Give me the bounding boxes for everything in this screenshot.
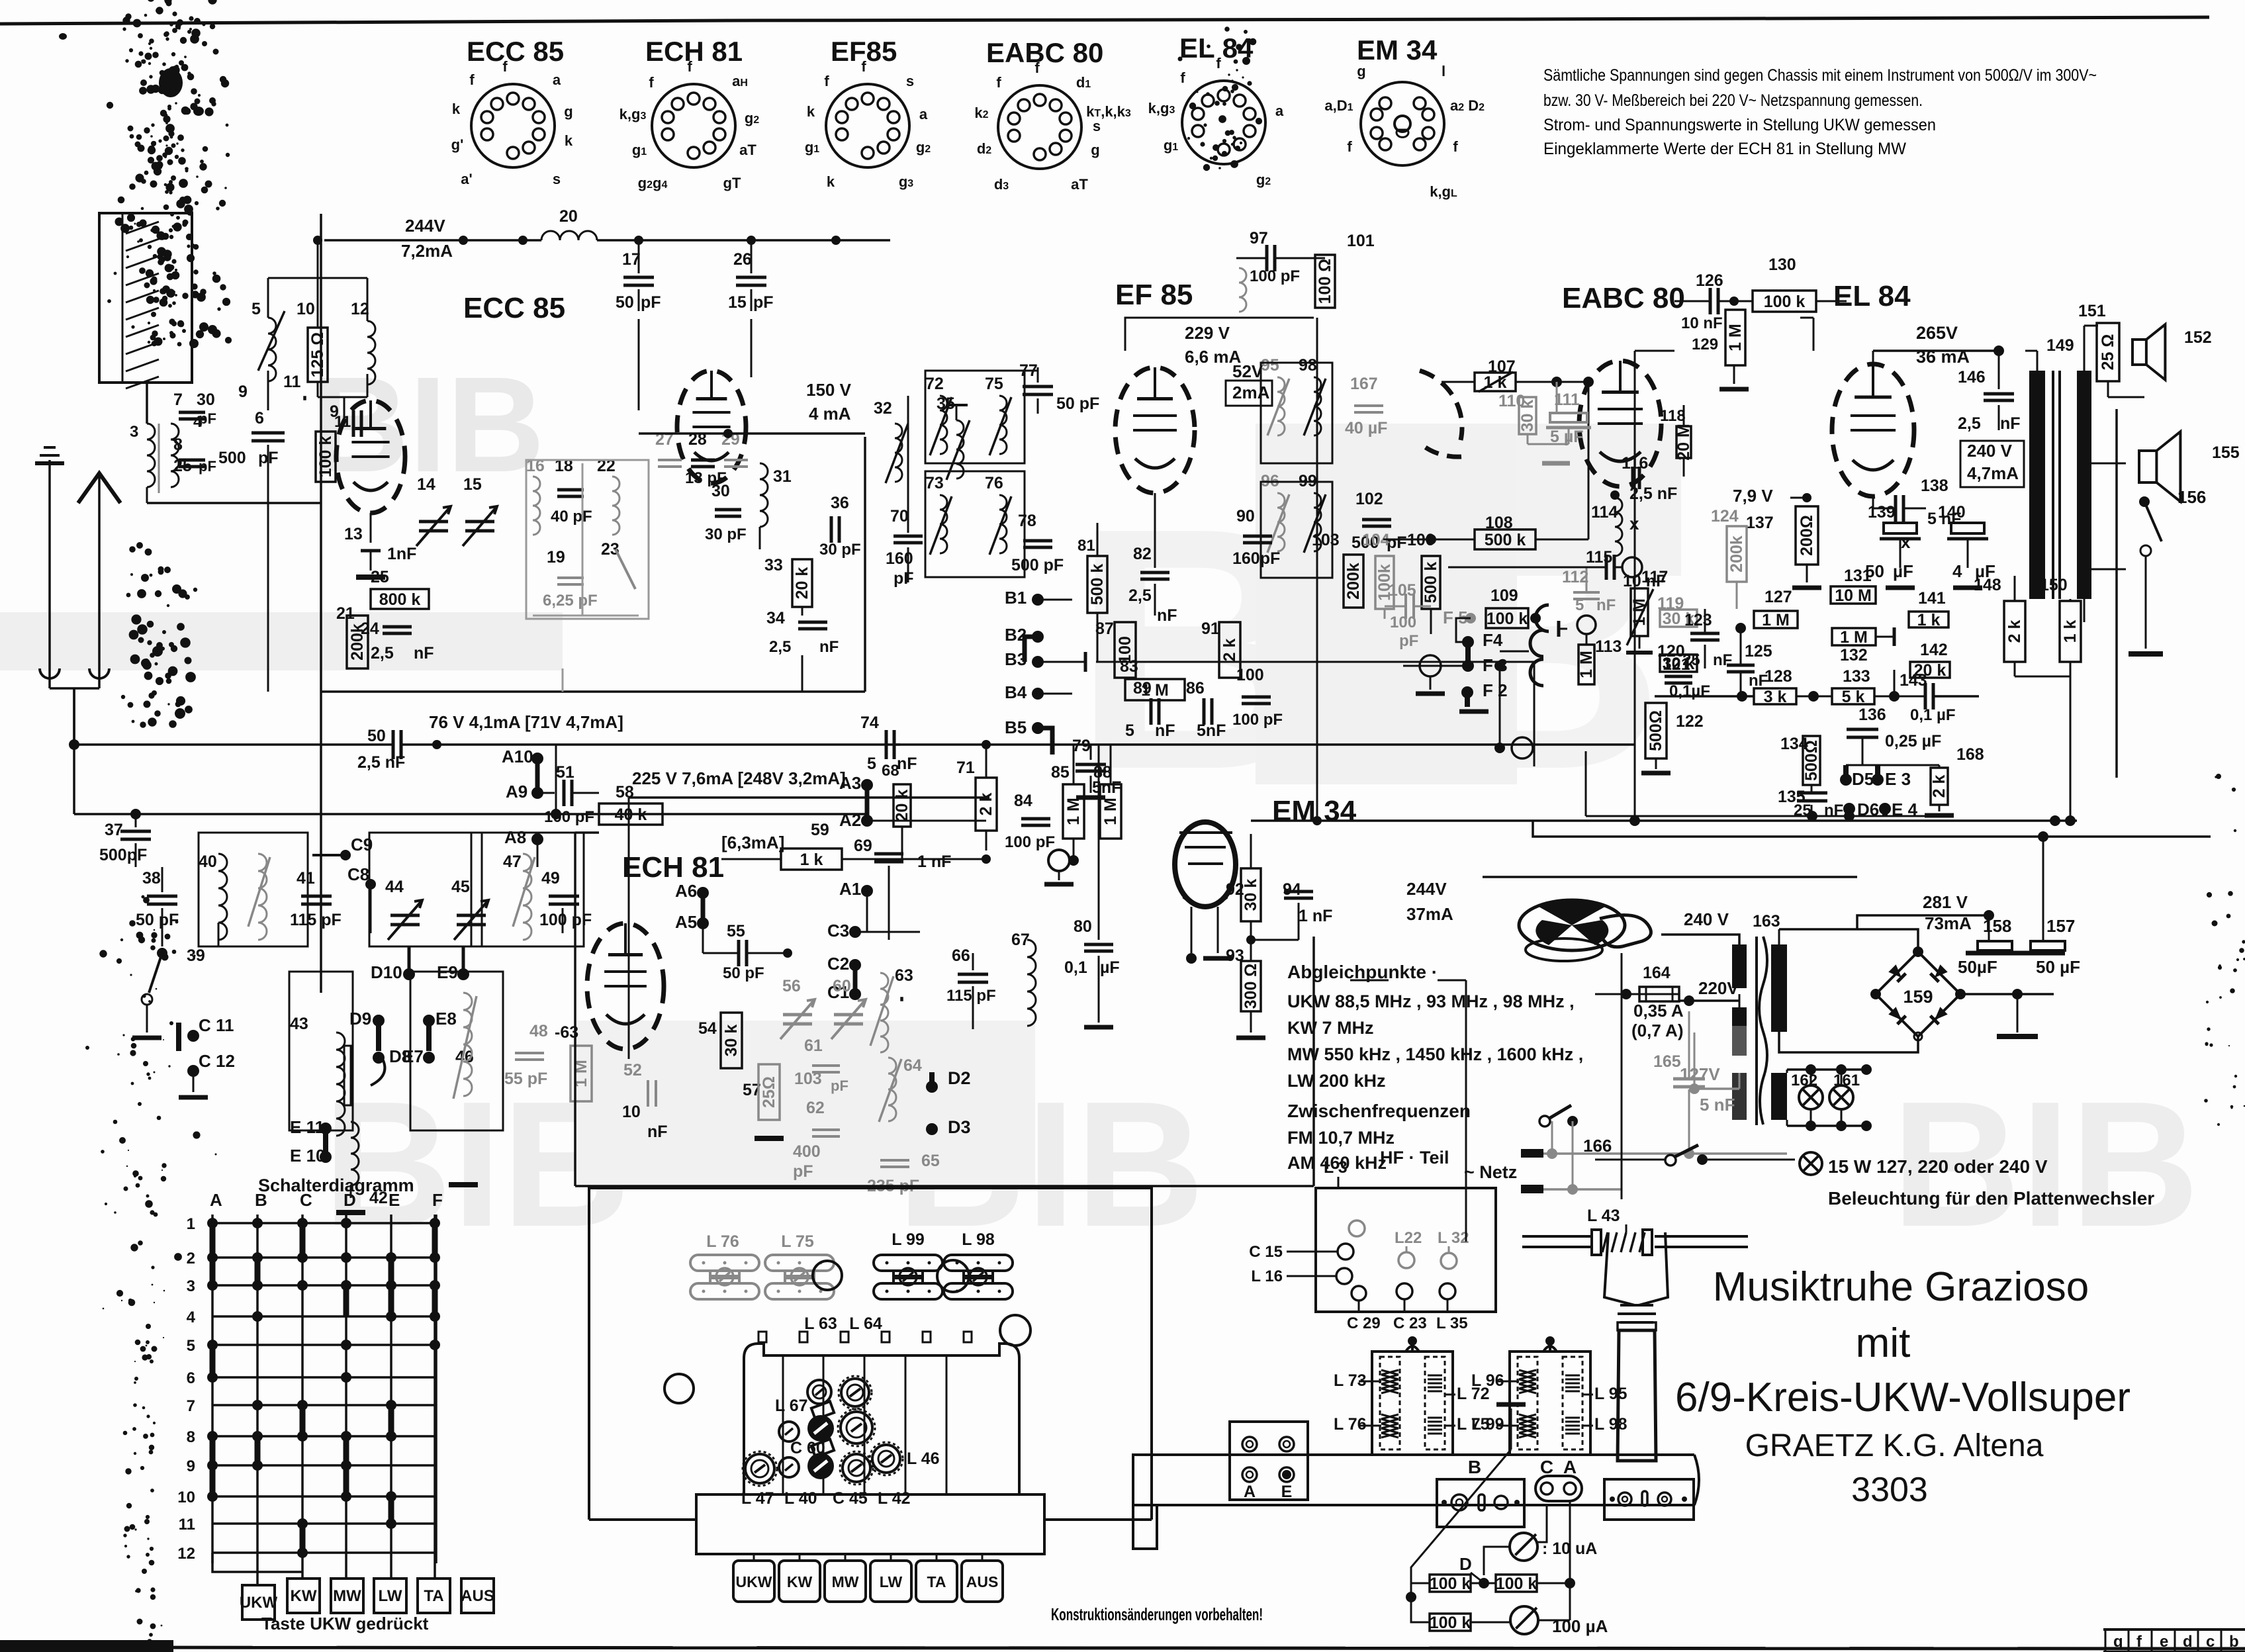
svg-text:ECH 81: ECH 81	[622, 851, 724, 884]
EM34 grid parts 84/85/88	[1005, 745, 1121, 884]
svg-text:75: 75	[985, 375, 1003, 393]
svg-text:40 pF: 40 pF	[551, 508, 592, 526]
svg-text:94: 94	[1283, 880, 1301, 899]
svg-text:3303: 3303	[1851, 1471, 1928, 1509]
svg-text:f: f	[649, 74, 654, 91]
svg-text:4,7mA: 4,7mA	[1967, 463, 2019, 483]
svg-text:55: 55	[727, 922, 745, 941]
svg-text:B: B	[1468, 1457, 1481, 1477]
svg-text:mit: mit	[1856, 1320, 1911, 1366]
svg-text:115 pF: 115 pF	[946, 987, 996, 1005]
chassis outline (coil pack top view)	[589, 1188, 1152, 1520]
svg-text:nF: nF	[2000, 414, 2021, 433]
svg-text:50 pF: 50 pF	[1056, 394, 1099, 413]
svg-text:L 67: L 67	[775, 1397, 808, 1415]
svg-text:F: F	[432, 1190, 443, 1210]
svg-text:31: 31	[773, 467, 792, 486]
tube socket ECC 85 pinout	[451, 36, 573, 187]
svg-text:81: 81	[1077, 537, 1095, 555]
tube socket EABC 80 pinout	[974, 37, 1130, 193]
svg-text:220V: 220V	[1698, 978, 1739, 998]
bias parts 21,24,25,33,34,36	[336, 494, 861, 692]
svg-text:32: 32	[874, 399, 892, 418]
svg-text:61: 61	[804, 1036, 823, 1055]
svg-text:133: 133	[1843, 667, 1870, 686]
svg-text:A8: A8	[504, 827, 526, 847]
svg-text:ECH 81: ECH 81	[645, 36, 743, 67]
svg-text:8: 8	[187, 1428, 195, 1446]
svg-text:pF: pF	[1399, 632, 1418, 650]
svg-text:155: 155	[2212, 443, 2240, 462]
svg-text:0,1: 0,1	[1064, 958, 1087, 977]
svg-text:159: 159	[1903, 987, 1933, 1007]
svg-text:5: 5	[867, 755, 876, 773]
svg-text:L 99: L 99	[892, 1230, 925, 1249]
svg-text:1nF: 1nF	[387, 545, 416, 563]
svg-text:132: 132	[1840, 646, 1868, 665]
svg-text:123: 123	[1684, 611, 1712, 629]
svg-text:6: 6	[187, 1369, 195, 1387]
svg-text:g: g	[1357, 63, 1365, 79]
ECH81 labels and R59/C69	[622, 821, 991, 940]
svg-text:78: 78	[1018, 512, 1036, 530]
svg-text:100 k: 100 k	[316, 436, 335, 478]
svg-text:43: 43	[290, 1015, 308, 1033]
svg-text:L 99: L 99	[1471, 1415, 1504, 1434]
pickup arm / cartridge	[1522, 1207, 1748, 1461]
antenna terminals	[35, 447, 120, 688]
svg-text:37: 37	[105, 821, 123, 839]
svg-text:[6,3mA]: [6,3mA]	[721, 833, 784, 852]
svg-text:bzw. 30 V- Meßbereich bei: bzw. 30 V- Meßbereich bei 220 V~ Netzspa…	[1543, 91, 1923, 110]
output transformer 149 + R151	[2025, 326, 2098, 622]
svg-text:s: s	[553, 171, 561, 187]
svg-text:L 35: L 35	[1436, 1314, 1468, 1332]
svg-text:a: a	[1275, 103, 1284, 119]
svg-text:130: 130	[1768, 255, 1796, 274]
svg-text:LW: LW	[880, 1573, 903, 1590]
tone network resistor ladder	[1586, 567, 2081, 826]
title block	[1675, 1264, 2130, 1509]
svg-text:66: 66	[952, 946, 970, 965]
svg-text:A5: A5	[675, 912, 697, 932]
svg-text:x: x	[1901, 532, 1911, 552]
svg-text:50: 50	[367, 727, 386, 745]
svg-text:105: 105	[1389, 581, 1416, 600]
svg-text:12: 12	[177, 1545, 195, 1563]
svg-text:54: 54	[698, 1019, 717, 1038]
svg-text:50µF: 50µF	[1958, 957, 1997, 977]
svg-text:141: 141	[1918, 589, 1946, 608]
svg-text:60: 60	[833, 977, 851, 995]
svg-text:11: 11	[179, 1516, 195, 1534]
svg-text:48: 48	[529, 1022, 548, 1040]
svg-text:L 3: L 3	[1324, 1158, 1348, 1177]
svg-text:E: E	[389, 1190, 400, 1210]
svg-text:168: 168	[1956, 745, 1984, 764]
svg-text:10: 10	[297, 300, 315, 318]
svg-text:C 12: C 12	[199, 1051, 235, 1071]
svg-text:EABC 80: EABC 80	[1562, 282, 1685, 314]
svg-text:L 63: L 63	[804, 1314, 837, 1333]
svg-text:L 43: L 43	[1587, 1207, 1620, 1225]
band filter / switch section	[66, 814, 867, 1213]
svg-text:2,5: 2,5	[1958, 414, 1981, 433]
band buttons row (chassis)	[733, 1554, 1003, 1602]
svg-text:6/9-Kreis-UKW-Vollsuper: 6/9-Kreis-UKW-Vollsuper	[1675, 1375, 2130, 1420]
IF coil cans L76/L75/L99/L98	[664, 1230, 1031, 1403]
svg-text:2 k: 2 k	[2005, 620, 2024, 643]
svg-text:225 V 7,6mA [248V 3,2m: 225 V 7,6mA [248V 3,2mA]	[632, 768, 846, 788]
tube ECH81	[587, 923, 664, 1049]
svg-text:83: 83	[1120, 657, 1138, 676]
svg-text:125 Ω: 125 Ω	[308, 332, 327, 378]
svg-text:14: 14	[417, 475, 435, 494]
resistor 81 500k	[1077, 523, 1107, 662]
svg-text:L 42: L 42	[878, 1489, 911, 1508]
svg-text:pF: pF	[641, 293, 661, 312]
svg-text:115: 115	[1586, 548, 1612, 567]
svg-text:C3: C3	[827, 921, 849, 941]
svg-text:56: 56	[782, 977, 801, 995]
svg-text:126: 126	[1696, 271, 1723, 290]
output meter test circuit	[1406, 1404, 1608, 1636]
svg-text:~ Netz: ~ Netz	[1464, 1162, 1517, 1182]
detector resistors 103-108	[1312, 382, 1588, 650]
svg-text:C 23: C 23	[1393, 1314, 1427, 1332]
svg-text:5: 5	[187, 1337, 195, 1355]
svg-text:30 k: 30 k	[1518, 400, 1537, 432]
svg-text:MW: MW	[832, 1573, 859, 1590]
svg-text:3 k: 3 k	[1764, 688, 1787, 706]
UKW tuner frame	[321, 214, 865, 993]
svg-text:pF: pF	[199, 410, 216, 427]
svg-text:0,1µF: 0,1µF	[1669, 682, 1710, 700]
svg-text:19: 19	[547, 548, 565, 567]
changer illumination lamp	[1595, 1145, 2154, 1209]
svg-text:33: 33	[764, 556, 783, 574]
svg-text:165: 165	[1653, 1052, 1681, 1071]
input trimmers 7/8	[173, 373, 305, 475]
svg-text:pF: pF	[831, 1078, 848, 1094]
ECH81 oscillator parts	[555, 881, 1036, 1195]
svg-text:UKW 88,5 MHz , 93 MHz , 98 M: UKW 88,5 MHz , 93 MHz , 98 MHz ,	[1287, 991, 1575, 1011]
band buttons row (switch diagram)	[240, 1563, 494, 1633]
svg-text:2,5: 2,5	[1128, 586, 1152, 605]
svg-text:26: 26	[733, 250, 752, 269]
svg-text:50 pF: 50 pF	[723, 964, 764, 982]
svg-text:aT: aT	[739, 142, 756, 158]
svg-text:100 pF: 100 pF	[1250, 267, 1300, 285]
svg-text:42: 42	[369, 1189, 388, 1207]
svg-text:157: 157	[2046, 916, 2075, 936]
svg-text:97: 97	[1250, 229, 1268, 248]
svg-text:125: 125	[1745, 642, 1772, 661]
svg-text:500 k: 500 k	[1422, 562, 1440, 604]
coil block L96/L95/L99/L98	[1471, 1336, 1627, 1455]
terminals A1-A3	[839, 773, 986, 932]
svg-text:30 pF: 30 pF	[819, 541, 861, 559]
svg-text:HF · Teil: HF · Teil	[1380, 1148, 1449, 1168]
EF85 stage parts	[1125, 229, 1407, 625]
svg-text:98: 98	[1299, 356, 1317, 375]
svg-text:4: 4	[1952, 561, 1962, 581]
svg-text:E 11: E 11	[290, 1117, 324, 1137]
svg-text:2 k: 2 k	[1220, 639, 1239, 662]
svg-text:A9: A9	[506, 782, 527, 802]
svg-text:58: 58	[616, 783, 634, 802]
svg-text:5 nF: 5 nF	[1700, 1095, 1735, 1115]
svg-text:D: D	[344, 1190, 356, 1210]
svg-text:7: 7	[187, 1397, 195, 1415]
svg-text:13: 13	[344, 525, 363, 543]
svg-text:C 15: C 15	[1249, 1243, 1283, 1261]
svg-text:1 k: 1 k	[1917, 611, 1941, 629]
svg-text:Sämtliche Spannungen sind g: Sämtliche Spannungen sind gegen Chassis …	[1543, 66, 2097, 85]
svg-text:2 k: 2 k	[977, 793, 995, 816]
svg-text:87: 87	[1095, 619, 1114, 638]
svg-text:D10: D10	[371, 962, 402, 982]
svg-text:15: 15	[463, 475, 482, 494]
svg-text:240 V: 240 V	[1967, 441, 2013, 461]
svg-text:GRAETZ K.G. Altena: GRAETZ K.G. Altena	[1745, 1428, 2044, 1463]
svg-text:KW: KW	[291, 1587, 317, 1605]
terminals A8-A10 and cap 51	[502, 747, 599, 867]
svg-text:µF: µF	[1100, 958, 1120, 977]
svg-text:24: 24	[361, 619, 379, 638]
resistor 151 25Ω	[2078, 302, 2119, 381]
svg-text:10: 10	[622, 1103, 641, 1121]
antenna coupling transformer	[50, 413, 321, 745]
svg-text:1 M: 1 M	[1840, 628, 1868, 647]
svg-text:500pF: 500pF	[99, 846, 147, 864]
svg-text:47: 47	[503, 852, 522, 871]
svg-text:1 M: 1 M	[1141, 681, 1169, 700]
svg-text:nF: nF	[414, 644, 434, 663]
svg-text:C 29: C 29	[1347, 1314, 1381, 1332]
svg-text:11: 11	[334, 413, 351, 431]
svg-text:ECC 85: ECC 85	[467, 36, 564, 67]
svg-text:a': a'	[461, 171, 472, 187]
IF transformer I (72/75/73/76, C70,C77,C78)	[886, 361, 1099, 588]
svg-text:L 16: L 16	[1251, 1267, 1283, 1285]
svg-text:nF: nF	[1713, 651, 1732, 669]
svg-text:76: 76	[985, 474, 1003, 492]
svg-text:g: g	[1091, 142, 1099, 158]
filter block with trimmers	[696, 1314, 1044, 1554]
svg-text:41: 41	[297, 869, 315, 888]
svg-text:pF: pF	[893, 569, 914, 588]
svg-text:114: 114	[1591, 503, 1618, 522]
svg-text:44: 44	[385, 878, 404, 896]
svg-text:100 k: 100 k	[1496, 1575, 1537, 1593]
svg-text:76 V 4,1mA [71V 4,7mA: 76 V 4,1mA [71V 4,7mA]	[429, 712, 623, 732]
svg-text:30: 30	[711, 482, 730, 500]
svg-text:5: 5	[1125, 721, 1134, 740]
UKW oscillator triode-a passives (5,10,12,6,9,13)	[218, 236, 416, 692]
svg-text:113: 113	[1595, 637, 1622, 656]
svg-text:71: 71	[956, 758, 975, 777]
svg-text:6,25 pF: 6,25 pF	[543, 592, 598, 610]
svg-text:100 pF: 100 pF	[1005, 833, 1055, 851]
svg-text:f: f	[469, 71, 475, 88]
svg-text:62: 62	[806, 1099, 825, 1117]
svg-text:69: 69	[854, 837, 872, 855]
svg-text:C: C	[300, 1190, 312, 1210]
svg-text:1: 1	[187, 1215, 195, 1233]
svg-text:LW 200 kHz: LW 200 kHz	[1287, 1071, 1386, 1091]
svg-text:µF: µF	[1893, 561, 1913, 581]
tube socket EF85 pinout	[805, 36, 931, 190]
svg-text:nF: nF	[1157, 606, 1177, 625]
svg-text:163: 163	[1753, 912, 1780, 931]
svg-text:f: f	[1180, 69, 1185, 86]
svg-text:pF: pF	[793, 1162, 813, 1181]
svg-text:gT: gT	[723, 175, 741, 191]
svg-text:800 k: 800 k	[379, 590, 421, 609]
svg-text:124: 124	[1711, 507, 1739, 526]
svg-text:52: 52	[623, 1061, 642, 1079]
svg-text:EM 34: EM 34	[1357, 34, 1438, 66]
svg-text:100 k: 100 k	[1430, 1575, 1471, 1593]
svg-text:50 µF: 50 µF	[2036, 957, 2080, 977]
svg-text:127: 127	[1764, 588, 1792, 606]
svg-text:nF: nF	[819, 638, 839, 656]
svg-text:f: f	[1347, 138, 1352, 155]
svg-text:100 k: 100 k	[1487, 610, 1528, 628]
svg-text:85: 85	[1051, 763, 1070, 782]
svg-text:E8: E8	[435, 1009, 457, 1029]
svg-text:6: 6	[255, 409, 264, 428]
svg-text:1 nF: 1 nF	[1299, 907, 1332, 925]
svg-text:160pF: 160pF	[1232, 549, 1280, 568]
ECH81 oscillator section frame	[575, 833, 1314, 1186]
svg-text:UKW: UKW	[736, 1573, 772, 1590]
svg-text:265V: 265V	[1916, 323, 1958, 343]
svg-text:2 k: 2 k	[1930, 775, 1948, 798]
AM aerial bus wire	[74, 688, 867, 819]
svg-text:0,1 µF: 0,1 µF	[1910, 706, 1956, 724]
scan shading (decorative)	[0, 424, 1681, 1186]
svg-text:7: 7	[173, 390, 183, 409]
svg-text:167: 167	[1350, 375, 1378, 393]
svg-text:L 76: L 76	[1334, 1415, 1367, 1434]
svg-text:200k: 200k	[1344, 563, 1363, 600]
svg-text:Eingeklammerte Werte der EC: Eingeklammerte Werte der ECH 81 in Stell…	[1543, 140, 1906, 158]
tube socket EL 84 pinout	[1148, 32, 1284, 188]
svg-text:L 64: L 64	[849, 1314, 882, 1333]
svg-text:142: 142	[1920, 641, 1948, 659]
svg-text:500Ω: 500Ω	[1647, 710, 1665, 751]
svg-text:122: 122	[1676, 712, 1704, 731]
svg-text:k: k	[452, 101, 461, 117]
svg-text:34: 34	[766, 609, 785, 627]
svg-text:L 47: L 47	[741, 1489, 774, 1508]
svg-text:40: 40	[199, 852, 217, 871]
svg-text:nF: nF	[1155, 721, 1175, 740]
svg-text:9: 9	[187, 1457, 195, 1475]
power supply (mains transformer 163, rectifier 159, caps, lamps)	[1483, 821, 2211, 1158]
svg-text:C 45: C 45	[833, 1489, 868, 1508]
svg-text:2,5: 2,5	[769, 638, 791, 656]
AF coupling parts 83-91,100	[1095, 619, 1283, 740]
svg-text:B4: B4	[1005, 682, 1027, 702]
svg-text:0,25 µF: 0,25 µF	[1885, 732, 1941, 751]
svg-text:A: A	[210, 1190, 222, 1210]
svg-text:k: k	[565, 132, 573, 149]
svg-text:UKW: UKW	[240, 1594, 278, 1612]
svg-text:30 k: 30 k	[722, 1025, 741, 1057]
svg-text:5nF: 5nF	[1197, 721, 1226, 740]
svg-text:nF: nF	[897, 755, 917, 773]
svg-text:164: 164	[1643, 964, 1671, 982]
svg-text:L 76: L 76	[706, 1232, 739, 1251]
svg-text:500: 500	[218, 449, 246, 467]
svg-text:229 V: 229 V	[1185, 323, 1230, 343]
svg-text:79: 79	[1072, 737, 1091, 755]
svg-text:115 pF: 115 pF	[290, 911, 342, 929]
resistor 71 2k	[956, 740, 997, 850]
svg-text:pF: pF	[753, 293, 774, 312]
svg-text:L 95: L 95	[1594, 1385, 1627, 1403]
svg-text:30 pF: 30 pF	[705, 526, 747, 543]
svg-text:k: k	[827, 173, 835, 190]
label EF 85 (stage)	[1115, 279, 1193, 311]
IF trap coils 32/35	[874, 394, 970, 483]
svg-text:f: f	[1034, 60, 1040, 76]
label EL 84 (stage)	[1833, 280, 1911, 312]
svg-text:100 Ω: 100 Ω	[1316, 259, 1334, 304]
svg-text:140: 140	[1938, 503, 1966, 522]
svg-text:400: 400	[793, 1142, 821, 1161]
svg-text:L 32: L 32	[1438, 1229, 1469, 1247]
svg-text:49: 49	[541, 869, 560, 888]
UKW shield box (gray)	[526, 460, 649, 692]
mains switch 166 and line caps	[1521, 1011, 1787, 1195]
svg-text:72: 72	[925, 375, 944, 393]
svg-text:1 M: 1 M	[1101, 798, 1120, 825]
svg-text:L22: L22	[1395, 1229, 1422, 1247]
svg-text:136: 136	[1858, 706, 1886, 724]
svg-text:20 k: 20 k	[893, 790, 911, 822]
svg-text:F 2: F 2	[1483, 680, 1508, 700]
corner pin table	[2103, 1629, 2245, 1652]
svg-text:E: E	[1281, 1483, 1293, 1501]
svg-text:KW 7 MHz: KW 7 MHz	[1287, 1018, 1374, 1038]
svg-text:148: 148	[1974, 576, 2001, 594]
svg-text:20: 20	[559, 207, 578, 226]
svg-text:B1: B1	[1005, 588, 1027, 608]
svg-text:88: 88	[1093, 763, 1112, 782]
svg-text:1 M: 1 M	[1064, 798, 1083, 825]
svg-text:AUS: AUS	[966, 1573, 999, 1590]
svg-text:500Ω: 500Ω	[1802, 740, 1821, 781]
svg-text:B5: B5	[1005, 717, 1027, 737]
svg-text:2mA: 2mA	[1232, 383, 1270, 402]
svg-text:g': g'	[451, 136, 464, 153]
svg-text:200Ω: 200Ω	[1798, 515, 1816, 556]
svg-text:200k: 200k	[1727, 535, 1746, 573]
svg-text:138: 138	[1921, 477, 1948, 495]
svg-text:f: f	[861, 58, 866, 75]
svg-text:131: 131	[1844, 567, 1872, 585]
svg-text:2,5: 2,5	[371, 644, 394, 663]
svg-text:80: 80	[1074, 917, 1092, 936]
svg-text:45: 45	[451, 878, 470, 896]
svg-text:g: g	[2113, 1633, 2123, 1651]
svg-text:s: s	[1093, 118, 1101, 134]
svg-text:30: 30	[197, 390, 215, 409]
